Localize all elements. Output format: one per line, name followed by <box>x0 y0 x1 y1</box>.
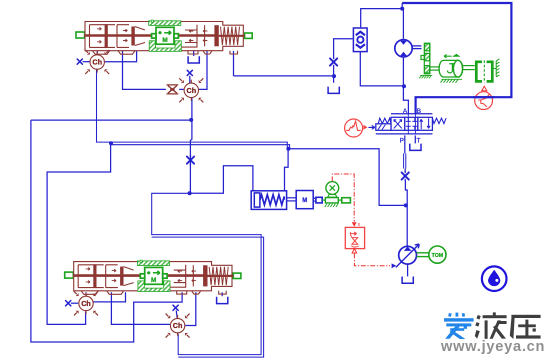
svg-text:www.jyeya.cn: www.jyeya.cn <box>440 339 545 355</box>
wire Ch1 top stub <box>96 51 98 55</box>
signal line to pump control <box>354 253 390 265</box>
junction D <box>188 191 192 195</box>
arrow out of box <box>352 249 357 253</box>
mid chamber step <box>135 27 145 46</box>
wire long left loop <box>31 120 182 342</box>
mass block M <box>140 260 167 284</box>
directional valve 4/3 <box>376 114 446 134</box>
piston 1 chamber lines <box>106 265 118 288</box>
junction C <box>189 118 193 122</box>
wire portE to Ch2b right <box>185 292 196 325</box>
wire spring piston right up <box>285 148 289 191</box>
wire xmark to Ch2 top <box>189 76 191 83</box>
wire xmark to Ch1 <box>83 61 90 63</box>
signal arrow into clutch <box>482 86 487 91</box>
wire valve P double a <box>403 154 405 169</box>
svg-text:TOM: TOM <box>432 253 443 259</box>
wire valve P down a <box>404 135 406 153</box>
piston 1 <box>105 24 108 47</box>
port green left <box>65 272 74 278</box>
svg-text:M: M <box>302 198 307 204</box>
svg-text:A: A <box>403 108 408 115</box>
mass block M2 <box>296 191 316 209</box>
piston 1 chamber lines <box>117 25 129 48</box>
wire Ch1b stub <box>85 292 87 296</box>
flow arrow <box>123 29 127 32</box>
flow arrow left <box>178 270 182 273</box>
inner bottom lines <box>90 46 198 48</box>
wire high pressure loop <box>402 3 511 114</box>
hydraulic node X pilot <box>330 57 337 67</box>
piston 2 <box>120 267 123 286</box>
node x-marker n4 <box>173 305 178 310</box>
prime mover TOM <box>429 246 446 263</box>
green hatch bottom <box>138 281 170 292</box>
wire X node to check valve pilot <box>334 39 353 57</box>
spring piston <box>251 191 296 210</box>
wire to Ch2 bottom asm <box>152 193 261 354</box>
node x-marker n2 <box>187 70 192 75</box>
watermark logo 液压 <box>475 312 541 339</box>
svg-text:M: M <box>151 277 156 284</box>
junction B <box>286 147 290 151</box>
flow arrow left <box>192 270 196 273</box>
watermark logo 爱 <box>444 313 474 339</box>
flow arrow <box>97 27 101 30</box>
droplet icon <box>482 266 507 291</box>
flow arrow left <box>189 30 193 33</box>
variable orifice box (signal controlled) <box>345 222 364 248</box>
HCD valve assembly upper V1 <box>76 20 252 54</box>
wire parallel return <box>152 237 264 357</box>
flow arrow <box>86 281 90 284</box>
force sensor <box>322 182 350 207</box>
junction E <box>404 203 408 207</box>
wire stub up <box>401 3 403 9</box>
variable displacement pump P1 <box>396 244 429 267</box>
flow arrow left <box>203 30 207 33</box>
hydraulic motor M1 <box>395 40 422 57</box>
wire portB to Ch2b left <box>111 292 169 324</box>
force sensor port (blue) <box>316 197 322 203</box>
wire asm top port6 down <box>233 51 235 76</box>
wire Ch2top down through X <box>190 98 192 194</box>
flow arrow left <box>189 39 193 42</box>
tank pilot <box>328 87 339 94</box>
green hatch top <box>149 21 181 26</box>
right guide <box>204 25 206 46</box>
body outline <box>74 262 232 291</box>
wire pump to tank <box>407 264 409 276</box>
spring <box>209 267 228 285</box>
orifice R1 <box>167 85 179 94</box>
wire motor top up <box>402 9 404 39</box>
wire Ch1top to pilot rail upper <box>97 69 288 148</box>
clutch U3 <box>476 59 499 83</box>
mass block M <box>151 20 178 44</box>
wire to pump line <box>288 149 405 206</box>
tank under upper assembly <box>188 56 199 63</box>
junction F <box>402 84 406 88</box>
flow arrow left <box>203 39 207 42</box>
svg-text:T: T <box>417 138 421 145</box>
port green left <box>76 32 85 38</box>
tank valve T <box>410 144 421 151</box>
valve port labels <box>400 108 421 145</box>
signal line sensor to orifice box <box>332 174 354 222</box>
wire pilot cross line <box>234 75 335 77</box>
flow arrow <box>123 39 127 42</box>
wire portC to Ch1b right <box>93 292 125 302</box>
rotary load J <box>439 54 475 82</box>
wire left loop to Ch1 bottom asm <box>47 143 111 324</box>
flow arrow <box>112 269 116 272</box>
flow arrow left <box>192 279 196 282</box>
arrow into pump <box>392 263 397 268</box>
wire overlay high pressure through circle <box>473 96 494 98</box>
feet <box>81 291 226 295</box>
right guide <box>192 265 194 286</box>
svg-text:P: P <box>400 138 404 145</box>
signal source ramp <box>345 119 363 137</box>
left chamber walls <box>90 25 116 48</box>
tank pump suction <box>402 277 413 284</box>
wire upper cross link <box>31 119 191 121</box>
hydraulic node X pline <box>402 171 409 181</box>
wire xmark to Ch1b <box>71 302 78 304</box>
svg-text:Ch: Ch <box>187 86 197 95</box>
node x-marker n1 <box>77 59 82 64</box>
gear ratio U2 <box>419 43 440 78</box>
chamber Ch1 upper <box>85 50 109 74</box>
green hatch top <box>137 261 169 266</box>
hydraulic node X mid <box>187 155 194 165</box>
wire orifice to Ch2 <box>179 88 184 90</box>
green hatch bottom <box>149 41 181 52</box>
junction A <box>109 141 113 145</box>
right chamber walls <box>174 265 186 288</box>
svg-text:Ch: Ch <box>92 58 102 67</box>
arrow into box <box>352 222 357 227</box>
flow arrow <box>112 279 116 282</box>
node x-marker n3 <box>66 301 71 306</box>
signal wire to solenoid <box>363 125 374 130</box>
wire port5 to Ch2 right <box>199 51 207 89</box>
piston 1 <box>93 264 96 287</box>
tank under lower assembly <box>217 297 228 304</box>
wire check valve top link <box>361 9 403 28</box>
mid chamber step <box>124 267 134 286</box>
port green right <box>233 273 241 278</box>
wire valve T down <box>414 135 416 143</box>
junction G <box>400 7 404 11</box>
chamber Ch1 lower <box>74 291 98 315</box>
spool rod <box>73 274 205 277</box>
svg-text:M: M <box>162 37 167 44</box>
wire port2 to orifice <box>123 51 166 89</box>
wire X to pump top <box>405 181 407 247</box>
right chamber walls <box>185 25 197 48</box>
wire valve P double b <box>405 154 407 169</box>
svg-text:Ch: Ch <box>81 299 91 308</box>
wire port3 to Ch1 right <box>105 51 137 62</box>
piston 3 <box>214 25 218 46</box>
flow arrow left <box>178 279 182 282</box>
body outline <box>85 22 243 51</box>
wire tank stub bottom asm <box>221 292 223 296</box>
wire tank stub top asm <box>193 51 195 56</box>
pilot check valve <box>353 28 367 52</box>
wire valve P join <box>404 169 406 172</box>
wire pilot rail lower <box>111 145 290 149</box>
spring <box>221 27 240 45</box>
signal source circle (clutch control) <box>475 92 493 110</box>
piston 3 <box>203 265 207 286</box>
svg-text:Ch: Ch <box>173 321 183 330</box>
piston 2 <box>131 27 134 46</box>
wire X node down to tank <box>333 67 335 83</box>
port green right <box>245 33 253 38</box>
svg-text:B: B <box>417 108 421 115</box>
spool rod <box>85 34 217 37</box>
wire to spring piston left <box>190 166 253 194</box>
wire xmark to Ch2b top <box>176 310 177 318</box>
flow arrow <box>86 268 90 271</box>
flow arrow <box>97 40 101 43</box>
wire check valve bottom link <box>360 52 403 86</box>
wire motor bottom to valve A <box>403 58 408 114</box>
inner bottom lines <box>78 286 186 288</box>
HCD valve assembly lower V2 <box>65 260 241 294</box>
chamber Ch2 lower <box>166 314 190 338</box>
junction H <box>332 74 336 78</box>
chamber Ch2 upper <box>179 78 203 102</box>
left chamber walls <box>78 265 104 288</box>
feet <box>93 51 238 55</box>
